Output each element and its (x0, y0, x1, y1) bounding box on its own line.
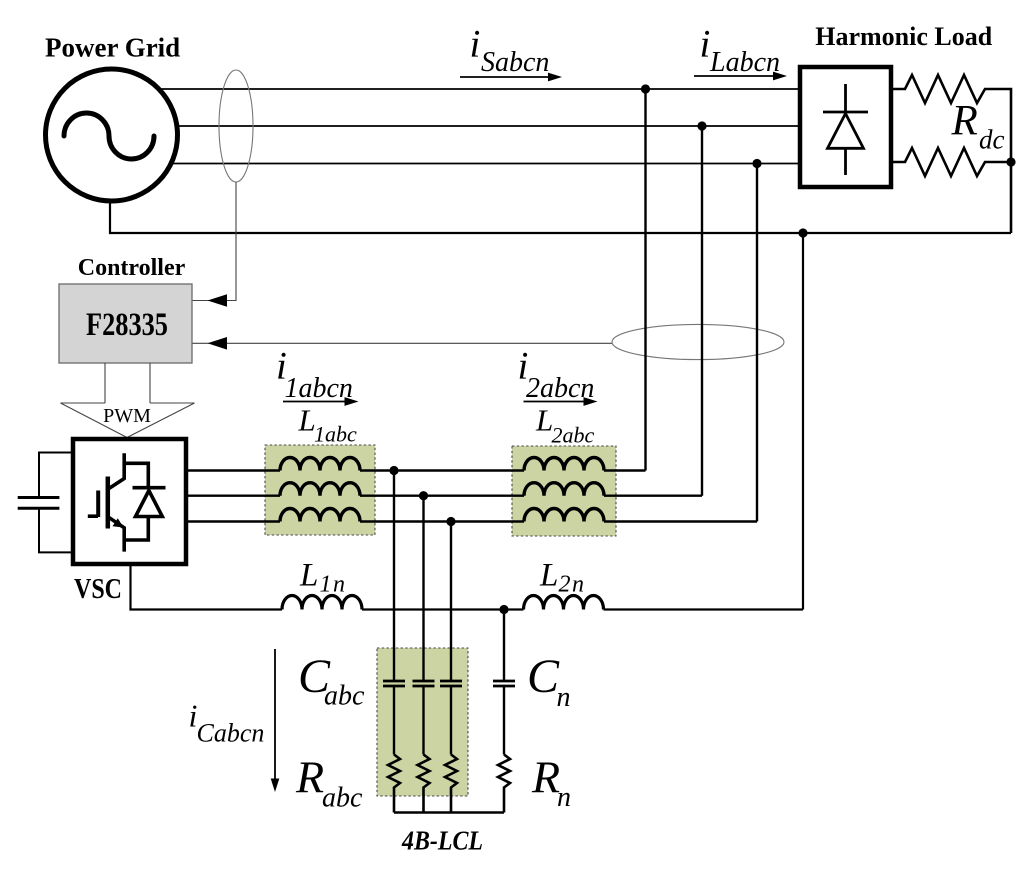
svg-text:abc: abc (324, 681, 365, 712)
RC filter bank box Cabc/Rabc (shaded) (377, 648, 468, 796)
resistor Rdc bottom (891, 148, 1011, 233)
inductor L1n (282, 596, 362, 610)
diode D2 stem bottom (844, 148, 847, 175)
inductor L1abc coil b (280, 483, 360, 496)
node filter tap c (446, 517, 455, 526)
DC-link capacitor plates (18, 498, 60, 509)
inductor L1abc coil a (280, 458, 360, 471)
transistor Q1 IGBT collector stem (108, 453, 124, 489)
node phase b junction on grid (697, 121, 706, 130)
svg-text:i: i (470, 23, 481, 66)
capacitor Cn plates (493, 681, 515, 686)
wire phase c VSC to L2 output (186, 164, 757, 522)
inductor bank box L1abc (shaded) (265, 445, 375, 535)
capacitor Ca plates (383, 681, 405, 686)
diode D2 stem top (844, 84, 847, 112)
arrowhead into controller (bottom) (208, 337, 228, 350)
capacitor Cb plates (413, 681, 435, 686)
rectifier box (800, 67, 891, 187)
wire Ca to Ra (393, 686, 395, 755)
node Rdc junction (1006, 157, 1015, 166)
capacitor Cn wire (503, 610, 505, 682)
inductor bank box L2abc (shaded) (512, 446, 616, 536)
node neutral junction (798, 228, 807, 237)
sensor wire CT1 to controller (192, 182, 236, 301)
svg-text:PWM: PWM (103, 405, 151, 427)
arrow i_Sabcn (460, 76, 549, 78)
inductor L1abc coil c (280, 509, 360, 522)
svg-text:Controller: Controller (78, 255, 186, 281)
svg-text:L: L (539, 558, 558, 594)
arrow i_2abcn (524, 401, 585, 403)
arrow i_Cabcn (274, 649, 276, 779)
node filter tap a (389, 466, 398, 475)
wire phase a VSC to L2 output (186, 89, 646, 471)
resistor Ra (388, 755, 400, 813)
diode D2 triangle (828, 114, 864, 149)
svg-text:n: n (557, 682, 571, 713)
wire phase c from grid (171, 163, 800, 165)
capacitor Cc plates (440, 681, 462, 686)
svg-text:R: R (531, 752, 560, 803)
node phase c junction on grid (752, 159, 761, 168)
AC source G1 power grid circle (46, 69, 178, 201)
svg-text:Labcn: Labcn (709, 47, 780, 78)
DC-link capacitor wires (39, 453, 73, 553)
wire neutral from grid bottom (110, 199, 1011, 233)
inductor L2abc coil b (524, 483, 604, 496)
svg-text:R: R (295, 752, 324, 803)
arrow i_Labcn (694, 75, 774, 77)
resistor Rc (445, 755, 457, 813)
wire phase a from grid (158, 88, 800, 90)
resistor Rb (418, 755, 430, 813)
svg-text:i: i (700, 23, 711, 66)
wire phase b VSC to L2 output (186, 126, 702, 496)
svg-text:C: C (527, 650, 560, 703)
transistor Q1 gate lead (88, 514, 98, 518)
svg-text:1abc: 1abc (314, 422, 357, 447)
sine symbol inside source (64, 113, 154, 159)
svg-text:abc: abc (322, 783, 363, 814)
wire neutral from VSC (131, 564, 283, 610)
node filter tap b (419, 491, 428, 500)
wire Q1 collector to diode cathode (124, 463, 148, 487)
inductor L2abc coil a (524, 458, 604, 471)
svg-text:4B-LCL: 4B-LCL (401, 826, 483, 856)
controller box F28335 (59, 284, 192, 363)
svg-text:L: L (535, 403, 553, 438)
svg-text:Sabcn: Sabcn (481, 47, 549, 78)
current sensor CT1 (ellipse on grid wires) (219, 70, 253, 182)
svg-text:Cabcn: Cabcn (197, 719, 265, 748)
transistor Q1 body bar (106, 477, 111, 529)
VSC box (73, 439, 186, 564)
svg-text:R: R (951, 98, 978, 145)
node neutral filter tap (499, 605, 508, 614)
svg-text:2abc: 2abc (552, 423, 595, 448)
wire neutral L2n to bus (604, 233, 804, 610)
svg-text:2n: 2n (559, 572, 586, 598)
diode D1 cathode bar (133, 486, 166, 490)
svg-text:n: n (557, 782, 571, 813)
resistor Rn (498, 755, 510, 813)
wire filter branch c down (450, 522, 452, 682)
svg-text:VSC: VSC (74, 573, 122, 605)
svg-text:Power Grid: Power Grid (45, 33, 180, 63)
inductor L2n (524, 596, 604, 610)
svg-text:L: L (299, 558, 318, 594)
svg-text:L: L (298, 403, 316, 438)
svg-text:F28335: F28335 (86, 307, 168, 343)
svg-text:1n: 1n (320, 572, 347, 598)
svg-text:Harmonic Load: Harmonic Load (815, 22, 992, 51)
arrow i_1abcn (283, 401, 345, 403)
current sensor CT2 (ellipse on feedback wires) (612, 324, 784, 359)
PWM block arrow outline (61, 363, 195, 438)
diode D2 cathode bar (823, 111, 868, 114)
wire diode anode to emitter (124, 517, 148, 541)
transistor Q1 gate bar (96, 491, 100, 518)
transistor Q1 emitter with arrow (108, 517, 124, 552)
svg-text:dc: dc (979, 125, 1005, 155)
node phase a junction on grid (641, 84, 650, 93)
wire Cb to Rb (422, 686, 424, 755)
diode D1 triangle (136, 491, 163, 517)
wire neutral between L1n and L2n (362, 608, 524, 610)
wire filter branch a down (393, 471, 395, 682)
resistor Rdc top (891, 75, 1011, 162)
arrowhead into controller (top) (208, 294, 228, 307)
wire filter branch b down (422, 496, 424, 681)
wire bottom bus (394, 811, 504, 813)
wire phase b from grid (177, 125, 800, 127)
wire Cn to Rn (503, 686, 505, 755)
sensor wire CT2 to controller (192, 342, 612, 344)
wire Cc to Rc (450, 686, 452, 755)
svg-text:1abcn: 1abcn (285, 373, 353, 404)
inductor L2abc coil c (524, 509, 604, 522)
